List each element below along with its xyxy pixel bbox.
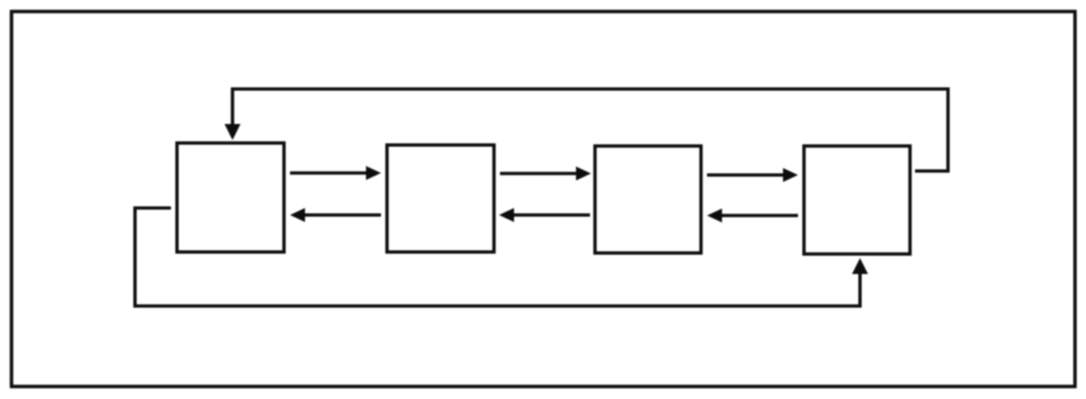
arrow box2 to box1 (backward)	[290, 208, 381, 222]
wire top feedback box4 to box1	[233, 89, 949, 171]
arrow box3 to box4 (forward)	[707, 168, 798, 182]
arrow box4 to box3 (backward)	[707, 209, 798, 223]
block box 4	[804, 146, 910, 254]
arrow box3 to box2 (backward)	[499, 208, 590, 222]
arrowhead into box4 bottom	[852, 258, 868, 274]
block box 1	[177, 143, 284, 252]
arrowhead into box1 top	[225, 124, 241, 140]
wire bottom feedback box1 to box4	[135, 208, 860, 306]
block box 2	[387, 145, 494, 252]
arrow box2 to box3 (forward)	[500, 167, 591, 181]
arrow box1 to box2 (forward)	[290, 166, 381, 180]
block box 3	[595, 146, 701, 253]
